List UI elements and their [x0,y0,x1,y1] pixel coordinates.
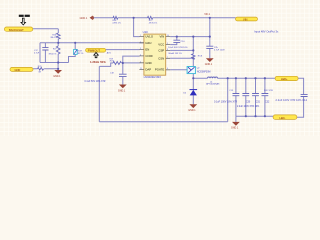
junction C30 top [245,77,247,79]
svg-text:4.7uF: 4.7uF [34,53,40,55]
svg-text:11: 11 [140,68,142,70]
junction COFF/R19 cross [122,62,124,64]
svg-text:PGATE: PGATE [155,68,164,72]
netport GND (left mid) [10,67,33,72]
ground (left loop) [53,70,62,78]
canvas background [0,0,320,136]
wire CSP row [170,49,193,51]
svg-text:49.9k 1%: 49.9k 1% [149,22,158,24]
ground (COFF cap) [118,85,127,93]
svg-text:10uF 50V X7R 10%: 10uF 50V X7R 10% [168,47,187,49]
svg-text:4R 1%: 4R 1% [78,53,84,55]
wire netport1 to R26 column [33,28,58,30]
arrow up (black) [94,53,99,58]
transistor Q2 (PMOS) [187,67,210,74]
svg-text:C30: C30 [246,102,251,104]
svg-text:C31: C31 [256,102,261,104]
resistor R25 [38,68,44,71]
resistor RCS (sense) [192,54,195,59]
inductor L4 [208,77,218,78]
svg-text:CSN: CSN [158,56,164,60]
svg-text:390k 1%: 390k 1% [49,53,57,55]
wire R27 stubs [57,43,59,63]
capacitor C7 [206,46,213,48]
IC U1 LM3409HVMX (U10) [143,30,166,79]
svg-text:RCS: RCS [198,56,203,58]
wire switch node [192,74,194,90]
arrow down (black) [21,18,26,25]
svg-text:4.7uF 100V: 4.7uF 100V [214,49,225,51]
svg-text:ACV: ACV [107,52,112,55]
junction C31 top [254,77,256,79]
svg-text:4: 4 [140,55,141,57]
svg-text:78.7k: 78.7k [110,61,115,63]
junction C32 top [264,77,266,79]
power flag GND.1 (left arrow on top rail) [80,16,94,21]
svg-text:6: 6 [167,68,168,70]
wire PGATE row [170,69,187,71]
junction C10 top [176,36,178,38]
svg-text:10: 10 [167,35,169,37]
capacitor C31 [252,94,259,96]
wire RT1 branch [69,43,76,63]
svg-text:2.2uF 100V X7R 10%: 2.2uF 100V X7R 10% [237,106,259,108]
svg-text:GND.1: GND.1 [53,75,61,78]
capacitor C12 [301,95,308,97]
svg-text:Input 48V OutPut 3x: Input 48V OutPut 3x [254,29,279,33]
svg-text:APS1040NAS: APS1040NAS [206,83,220,86]
wire left loop bottom rail [40,62,69,64]
svg-text:LM3409HVMX: LM3409HVMX [144,75,162,79]
junction UVLO divider [133,17,135,19]
svg-text:GND.1: GND.1 [80,17,88,20]
wire C12 to LED- [297,97,304,117]
wire cap bank bottom rail [236,115,273,117]
svg-text:50V X7R: 50V X7R [264,90,273,92]
capacitor C30 [242,94,249,96]
svg-text:C32: C32 [265,102,270,104]
wire R26 column vertical [57,29,59,43]
svg-text:GND.1: GND.1 [231,127,239,130]
junction C30 bottom [245,115,247,117]
capacitor C17 [42,48,48,50]
svg-text:UVLO: UVLO [145,35,153,39]
svg-text:U10: U10 [143,30,149,34]
wire feedback left vertical [98,66,100,121]
ground (cap bank) [231,122,240,130]
netport VIN (top right) [236,17,258,21]
wire feedback right vertical [227,78,229,122]
wire UVLO branch [134,18,140,37]
svg-text:EN: EN [145,48,149,52]
svg-text:IADJ: IADJ [145,41,152,45]
netport BL_EN (top-left) [4,27,32,32]
junction CSP tap [192,49,194,51]
svg-text:7: 7 [167,57,168,59]
junction C19 top [235,77,237,79]
netport LED+ [275,76,298,81]
svg-text:1: 1 [140,35,141,37]
junction C32 bottom [264,115,266,117]
ground (diode) [188,104,197,112]
svg-text:VD.1: VD.1 [204,12,210,16]
capacitor C19 [233,94,240,96]
svg-text:4.99k 1%: 4.99k 1% [112,22,121,24]
junction switch node [192,77,194,79]
svg-text:BACKLIGHT: BACKLIGHT [9,28,24,32]
resistor RCH (cyan box component) [74,49,78,54]
wire COFF cap lower stub [122,77,124,85]
resistor R17 [148,16,153,19]
junction VD node top rail [209,17,211,19]
wire VD column [209,18,211,46]
resistor R16 [113,16,118,19]
ground (C7 input cap) [205,58,214,66]
pin numbers [140,35,169,70]
resistor R19 [113,62,121,65]
svg-text:30mR 1W 1%: 30mR 1W 1% [168,53,182,55]
svg-text:8: 8 [167,49,168,51]
svg-text:NCE06P30M: NCE06P30M [197,71,210,73]
wire diode to gnd stub [192,95,194,104]
wire C7 stub to gnd [209,49,211,59]
junction at R27 bottom [57,61,59,63]
wire C10 stubs [170,37,177,45]
wire VIN row [170,36,210,38]
junction VIN/C7 column [209,36,211,38]
wire gnd drop [57,63,59,71]
junction C31 bottom [254,115,256,117]
svg-text:3: 3 [140,48,141,50]
wire GND netport row [33,68,58,70]
svg-text:LED+: LED+ [281,77,288,81]
wire sense column [192,37,194,67]
svg-text:VCC: VCC [158,43,164,47]
junction at GND net [57,68,59,70]
svg-text:0.1uF 50V 10% X7R: 0.1uF 50V 10% X7R [85,81,106,83]
svg-text:1.2KHz 50%: 1.2KHz 50% [90,60,106,64]
label backlight (black) [19,15,30,17]
svg-text:5: 5 [140,61,141,63]
svg-text:GND.1: GND.1 [188,109,196,112]
junction at R26/IADJ rail [57,42,59,44]
wire top rail [93,17,235,19]
wire feedback bottom rail [99,121,227,123]
junction feedback/output rail [227,77,229,79]
diode D5 [183,90,197,96]
svg-text:DAP: DAP [145,68,151,72]
wire EN [106,49,140,51]
svg-text:0.1uF 100V 10% X7R: 0.1uF 100V 10% X7R [214,101,237,104]
svg-text:LED-: LED- [280,116,286,120]
svg-text:COFF: COFF [145,54,153,58]
wire LED+ to C12 [298,78,304,94]
wire output rail [193,77,275,79]
wire cap bank stubs [235,78,237,116]
svg-text:VIN: VIN [243,17,247,21]
wire IADJ rail [40,42,144,44]
svg-text:GND.1: GND.1 [205,63,213,66]
capacitor C18 (COFF) [119,74,127,76]
IC pin leads [139,37,170,70]
svg-text:GND.1: GND.1 [118,89,126,92]
wire CSN row [170,57,193,59]
resistor R27 [56,46,60,54]
svg-text:VIN: VIN [160,35,165,39]
junction sense column top [192,36,194,38]
capacitor C32 [262,94,269,96]
svg-text:GND: GND [145,61,151,65]
wire C17 stubs [44,43,46,63]
netport LED- [273,115,297,120]
svg-text:PWMOUT: PWMOUT [88,50,101,53]
svg-text:GND: GND [15,68,21,72]
svg-text:CSP: CSP [158,49,164,53]
svg-text:2.2uF 100V X7R 10% C12: 2.2uF 100V X7R 10% C12 [276,99,308,102]
wire left loop vertical [39,43,41,63]
junction CSN tap [192,57,194,59]
capacitor C10 [173,40,180,42]
svg-text:9: 9 [167,43,168,45]
resistor R26 [57,33,61,39]
svg-text:39k 1%: 39k 1% [50,37,57,39]
svg-text:2: 2 [140,41,141,43]
wire gnd2 stub [235,116,237,122]
wire COFF [123,56,140,74]
junction at RCH branch [74,42,76,44]
wire GND pin row [99,63,139,67]
netport PWMOUT [86,48,106,52]
